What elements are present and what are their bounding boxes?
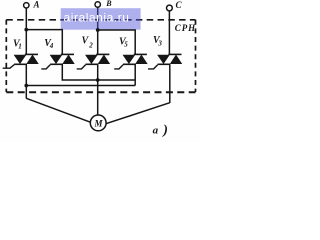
svg-text:М: М — [94, 118, 104, 128]
wire output rail — [26, 85, 135, 87]
svg-text:3: 3 — [157, 40, 162, 48]
wire B node to V5 top — [98, 30, 136, 55]
gate lead V4 — [41, 65, 50, 69]
svg-text:СРН: СРН — [175, 23, 196, 33]
terminal C — [167, 5, 173, 11]
wire V3 bottom vertical — [169, 64, 171, 103]
gate lead V2 — [77, 65, 86, 69]
svg-text:airalania.ru: airalania.ru — [64, 11, 130, 25]
thyristor pair V1 — [14, 54, 38, 64]
wire V2/B bottom vertical to motor — [97, 64, 99, 115]
wire V1 bottom vertical — [25, 64, 27, 98]
svg-text:С: С — [176, 0, 183, 10]
thyristor pair V4 — [50, 54, 74, 64]
motor M — [90, 115, 106, 131]
thyristor pair V5 — [123, 54, 147, 64]
gate lead V1 — [3, 65, 15, 69]
wire phase C vertical — [168, 11, 170, 55]
node V2-bottom junction dot — [96, 78, 100, 82]
thyristor pair V3 — [158, 54, 182, 64]
svg-text:2: 2 — [88, 41, 93, 49]
wire phase B vertical — [97, 7, 99, 54]
svg-text:В: В — [105, 0, 112, 8]
wire phase A vertical — [25, 8, 27, 54]
watermark band — [61, 8, 141, 30]
svg-text:4: 4 — [49, 42, 54, 50]
wire A node to V4 top — [26, 30, 62, 55]
svg-text:А: А — [33, 0, 40, 10]
terminal B — [95, 2, 100, 7]
wire right diagonal to motor — [106, 103, 170, 124]
wire node B2 to V5 bottom — [98, 79, 136, 81]
svg-text:1: 1 — [18, 43, 22, 51]
gate lead V3 — [148, 65, 158, 69]
terminal A — [24, 3, 29, 8]
svg-text:5: 5 — [124, 41, 128, 49]
wire left diagonal to motor — [26, 98, 90, 122]
wire V4 bottom L to node B2 — [62, 64, 97, 80]
node B junction dot — [96, 28, 100, 32]
node V1-rail junction dot — [24, 84, 28, 88]
thyristor pair V2 — [86, 54, 110, 64]
node A junction dot — [24, 28, 28, 32]
svg-text:а: а — [153, 124, 159, 136]
wire V5 bottom vertical — [134, 64, 136, 85]
dashed enclosure box (CPH unit) — [6, 20, 195, 92]
gate lead V5 — [114, 65, 123, 69]
